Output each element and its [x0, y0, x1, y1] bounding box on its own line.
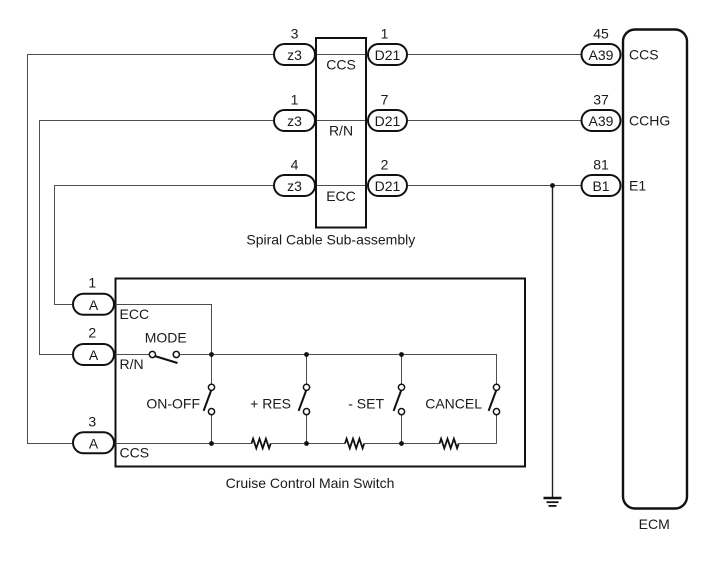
wire ON-OFF column lower [211, 415, 213, 444]
switch -SET [394, 384, 405, 415]
ground symbol [544, 498, 562, 506]
connector D21 pin 7 [368, 110, 407, 131]
svg-text:z3: z3 [287, 113, 302, 129]
node bottom junction at ON-OFF [209, 441, 214, 446]
svg-text:E1: E1 [629, 178, 646, 194]
svg-text:z3: z3 [287, 47, 302, 63]
wire row1 CCS left run from z3 to cruise switch pin 3 [28, 55, 274, 444]
svg-text:MODE: MODE [145, 330, 187, 346]
switch +RES [299, 384, 310, 415]
svg-text:ECM: ECM [639, 516, 670, 532]
svg-text:2: 2 [88, 325, 96, 341]
svg-text:ECC: ECC [326, 188, 356, 204]
wire CCS bottom row segment 4 [459, 443, 497, 445]
svg-text:A39: A39 [589, 47, 614, 63]
svg-text:B1: B1 [592, 178, 609, 194]
connector z3 pin 1 [274, 110, 315, 131]
wire common rail from MODE right contact [179, 355, 496, 385]
svg-text:37: 37 [593, 92, 609, 108]
wire row2 R-N left run from z3 to cruise switch pin 2 [40, 121, 274, 355]
svg-text:1: 1 [88, 274, 96, 290]
connector A pin 2 [73, 344, 114, 365]
wire -SET column lower [401, 415, 403, 444]
wire +RES column upper [306, 355, 308, 385]
svg-text:81: 81 [593, 157, 609, 173]
svg-text:CCS: CCS [629, 47, 659, 63]
svg-text:A: A [89, 435, 99, 451]
svg-text:CCS: CCS [120, 445, 150, 461]
svg-text:D21: D21 [375, 178, 401, 194]
svg-text:CANCEL: CANCEL [425, 396, 482, 412]
wire row1 CCS inside spiral box [316, 54, 368, 56]
wire row3 ECC left run from z3 to cruise switch pin 1 [55, 186, 274, 305]
svg-text:z3: z3 [287, 178, 302, 194]
connector A39 pin 37 [582, 110, 621, 131]
wire ground drop from E1 row [552, 186, 554, 498]
wire row1 D21 to A39 [408, 54, 581, 56]
svg-text:- SET: - SET [348, 396, 384, 412]
connector A pin 3 [73, 432, 114, 453]
svg-text:A39: A39 [589, 113, 614, 129]
wire CCS bottom row segment 3 [364, 443, 440, 445]
wire +RES column lower [306, 415, 308, 444]
node rail junction at +RES [304, 352, 309, 357]
wire row3 D21 to B1 [408, 185, 581, 187]
wire CCS bottom row segment 2 [271, 443, 346, 445]
svg-text:D21: D21 [375, 113, 401, 129]
svg-text:1: 1 [381, 26, 389, 42]
svg-text:ECC: ECC [120, 306, 150, 322]
connector B1 pin 81 [582, 175, 621, 196]
svg-text:3: 3 [88, 413, 96, 429]
svg-text:A: A [89, 297, 99, 313]
wire ECC run inside cruise box to ON-OFF column [116, 305, 212, 385]
svg-text:4: 4 [291, 157, 299, 173]
svg-text:Spiral Cable Sub-assembly: Spiral Cable Sub-assembly [246, 232, 415, 248]
svg-text:CCHG: CCHG [629, 113, 670, 129]
wire -SET column upper [401, 355, 403, 385]
svg-text:R/N: R/N [120, 356, 144, 372]
wire R/N stub to MODE left contact [116, 354, 150, 356]
switch ON-OFF [204, 384, 215, 415]
svg-text:CCS: CCS [326, 57, 356, 73]
svg-text:Cruise Control Main Switch: Cruise Control Main Switch [226, 475, 395, 491]
resistor R2 [345, 439, 364, 449]
connector A39 pin 45 [582, 44, 621, 65]
ECM box [623, 30, 687, 509]
svg-text:ON-OFF: ON-OFF [146, 396, 200, 412]
svg-text:45: 45 [593, 26, 609, 42]
connector D21 pin 1 [368, 44, 407, 65]
node junction on E1 wire [550, 183, 555, 188]
node rail junction at ON-OFF [209, 352, 214, 357]
svg-text:+ RES: + RES [250, 396, 291, 412]
wire row2 inside spiral box [316, 120, 368, 122]
resistor R1 [252, 439, 271, 449]
svg-text:D21: D21 [375, 47, 401, 63]
connector z3 pin 4 [274, 175, 315, 196]
svg-text:R/N: R/N [329, 123, 353, 139]
wire CANCEL column lower [496, 415, 498, 444]
connector D21 pin 2 [368, 175, 407, 196]
svg-text:7: 7 [381, 92, 389, 108]
svg-text:3: 3 [291, 26, 299, 42]
svg-text:2: 2 [381, 157, 389, 173]
wire row2 D21 to A39 [408, 120, 581, 122]
connector A pin 1 [73, 294, 114, 315]
node rail junction at -SET [399, 352, 404, 357]
switch MODE [149, 351, 179, 363]
connector z3 pin 3 [274, 44, 315, 65]
switch CANCEL [489, 384, 500, 415]
svg-text:1: 1 [291, 92, 299, 108]
svg-text:A: A [89, 347, 99, 363]
wire row3 inside spiral box [316, 185, 368, 187]
spiral cable sub-assembly box [316, 38, 366, 228]
resistor R3 [440, 439, 459, 449]
cruise control main switch box [116, 279, 526, 467]
node bottom junction at +RES [304, 441, 309, 446]
node bottom junction at -SET [399, 441, 404, 446]
wire CCS bottom row segment 1 [116, 443, 252, 445]
